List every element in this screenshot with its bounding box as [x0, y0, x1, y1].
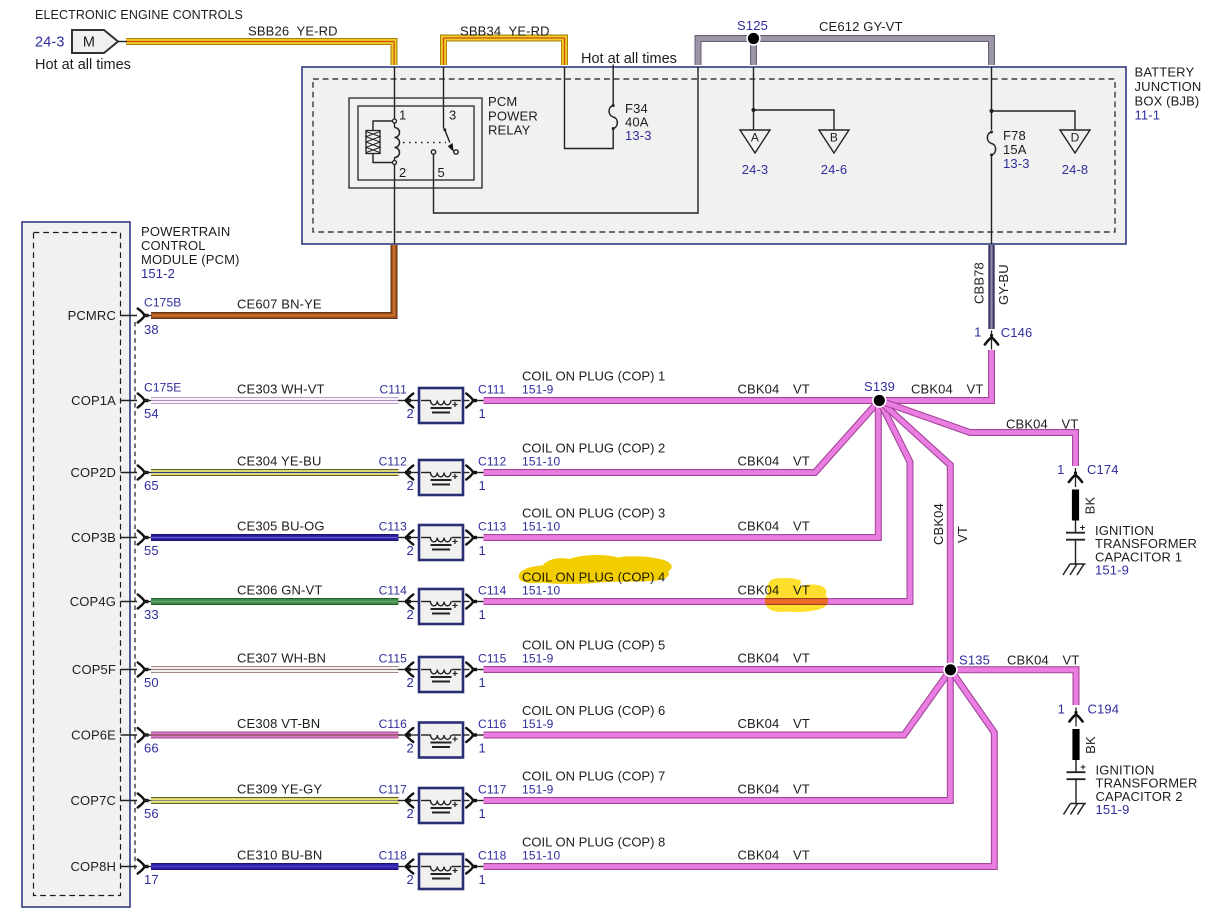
svg-text:COIL ON PLUG (COP) 3: COIL ON PLUG (COP) 3: [522, 506, 665, 521]
svg-text:CBB78: CBB78: [972, 262, 987, 304]
connector C118 pin 1 arrow (coil output): [463, 866, 470, 868]
PCM module box (POWERTRAIN CONTROL MODULE): [22, 222, 130, 907]
ignition coil 8 box: [419, 854, 463, 889]
svg-text:BOX (BJB): BOX (BJB): [1135, 94, 1200, 109]
wire CBK04 VT from C117 to splice: [484, 670, 951, 801]
svg-text:CBK04: CBK04: [738, 382, 780, 397]
fuse F78 15A: [987, 132, 995, 155]
relay coil terminal 2: [393, 161, 397, 165]
wire CBK04 VT from C111 to splice: [484, 397, 880, 404]
ignition coil 7 box: [419, 788, 463, 823]
svg-text:COIL ON PLUG (COP) 8: COIL ON PLUG (COP) 8: [522, 835, 665, 850]
wire CE607 BN-YE from relay pin 2 to PCMRC: [151, 245, 394, 316]
svg-text:VT: VT: [793, 651, 810, 666]
svg-text:1: 1: [1058, 702, 1065, 717]
svg-text:COIL ON PLUG (COP) 2: COIL ON PLUG (COP) 2: [522, 441, 665, 456]
svg-text:2: 2: [407, 543, 414, 558]
svg-text:1: 1: [1057, 462, 1064, 477]
svg-text:S125: S125: [737, 18, 768, 33]
wire CBK04 VT from S135 to C194 capacitor branch: [951, 670, 1077, 705]
ignition coil 2 box: [419, 460, 463, 495]
svg-text:151-9: 151-9: [522, 783, 554, 797]
connector C115 pin 2 arrow (coil input): [405, 668, 411, 671]
svg-text:24-6: 24-6: [821, 162, 848, 177]
connector C116 pin 1 arrow (coil output): [463, 734, 470, 736]
svg-text:151-10: 151-10: [522, 849, 560, 863]
connector arrow pin 55: [143, 536, 149, 539]
svg-text:151-10: 151-10: [522, 455, 560, 469]
ignition coil 1 core bars: [431, 407, 452, 409]
svg-text:VT: VT: [1062, 417, 1079, 432]
svg-text:2: 2: [407, 741, 414, 756]
svg-text:54: 54: [144, 406, 159, 421]
wire CBK04 VT from C113 to splice: [484, 401, 880, 538]
svg-text:24-3: 24-3: [742, 162, 769, 177]
eyelet terminal A: [740, 130, 770, 153]
svg-text:17: 17: [144, 872, 159, 887]
svg-text:C117: C117: [478, 783, 507, 797]
svg-text:D: D: [1071, 131, 1080, 145]
wire CE305 BU-OG: [151, 534, 399, 541]
wire CBK04 VT from C114 to splice: [484, 401, 911, 602]
splice S135: [943, 663, 958, 678]
relay suppression resistor: [373, 121, 393, 131]
connector arrow pin 66: [143, 733, 149, 736]
svg-text:50: 50: [144, 675, 159, 690]
svg-text:COP1A: COP1A: [71, 393, 116, 408]
wire: F34 fuse bottom lead to SBB34 right leg: [565, 67, 614, 149]
ignition coil 3 box: [419, 525, 463, 560]
svg-text:C118: C118: [379, 849, 408, 863]
wire BK (black) to capacitor 2: [1072, 729, 1079, 760]
svg-text:COIL ON PLUG (COP) 1: COIL ON PLUG (COP) 1: [522, 369, 665, 384]
connector arrow pin 54: [143, 399, 149, 402]
svg-text:GY-BU: GY-BU: [996, 264, 1011, 305]
svg-text:C114: C114: [379, 584, 408, 598]
connector C112 pin 2 arrow (coil input): [405, 471, 411, 474]
wire CE308 VT-BN: [151, 732, 399, 739]
connector C114 pin 1 arrow (coil output): [463, 601, 470, 603]
svg-text:CE310 BU-BN: CE310 BU-BN: [237, 848, 322, 863]
wire CBK04 VT from C116 to splice: [484, 670, 951, 735]
svg-text:RELAY: RELAY: [488, 123, 531, 138]
svg-text:1: 1: [479, 406, 486, 421]
wire SBB34 YE-RD from F34 to relay pin 3: [444, 38, 565, 65]
ignition coil 4 box: [419, 589, 463, 624]
svg-text:COP4G: COP4G: [70, 594, 116, 609]
wire CE304 YE-BU: [151, 469, 399, 476]
svg-text:13-3: 13-3: [625, 128, 652, 143]
wire CBK04 VT from C118 to splice: [484, 670, 995, 867]
svg-text:VT: VT: [967, 382, 984, 397]
svg-text:13-3: 13-3: [1003, 156, 1030, 171]
svg-text:CE303 WH-VT: CE303 WH-VT: [237, 382, 325, 397]
wire SBB26 YE-RD from connector M to relay pin 1: [126, 42, 394, 66]
wire: F34 fuse top lead from Hot at all times: [612, 65, 614, 106]
svg-text:CE607 BN-YE: CE607 BN-YE: [237, 297, 322, 312]
wire CBB78 GY-BU from BJB to C146: [988, 245, 994, 329]
ignition coil 8 core bars: [431, 873, 452, 875]
svg-text:C174: C174: [1087, 462, 1119, 477]
svg-text:CBK04: CBK04: [738, 782, 780, 797]
ground for capacitor 2: [1071, 803, 1087, 805]
connector arrow pin 65: [143, 471, 149, 474]
wire: relay pin2 to box bottom (to CE607): [394, 164, 396, 244]
svg-text:CE305 BU-OG: CE305 BU-OG: [237, 519, 325, 534]
svg-text:151-10: 151-10: [522, 520, 560, 534]
svg-text:BK: BK: [1083, 736, 1098, 754]
eyelet terminal D: [1060, 130, 1090, 153]
svg-text:POWER: POWER: [488, 108, 538, 123]
svg-text:F78: F78: [1003, 128, 1026, 143]
ignition coil 6 core bars: [431, 742, 452, 744]
PCM inner dashed border: [34, 233, 121, 896]
svg-text:C114: C114: [478, 584, 507, 598]
connector C114 pin 2 arrow (coil input): [405, 600, 411, 603]
svg-text:VT: VT: [955, 526, 970, 543]
ignition coil 2 winding: [421, 472, 431, 474]
svg-text:S135: S135: [959, 653, 990, 668]
svg-text:JUNCTION: JUNCTION: [1135, 79, 1202, 94]
svg-text:S139: S139: [864, 379, 895, 394]
svg-text:5: 5: [438, 165, 445, 180]
wire: S125 stub into BJB to junction: [753, 67, 755, 110]
svg-text:C112: C112: [478, 455, 507, 469]
splice S125: [746, 31, 760, 45]
Battery Junction Box (BJB): [302, 67, 1126, 244]
ignition transformer capacitor 1 plates: [1066, 532, 1085, 534]
svg-text:VT: VT: [793, 454, 810, 469]
wire: relay pin5 to CE612 left leg: [434, 67, 699, 213]
svg-text:151-9: 151-9: [522, 717, 554, 731]
svg-text:56: 56: [144, 806, 159, 821]
svg-text:VT: VT: [1063, 653, 1080, 668]
ground for capacitor 1: [1070, 563, 1086, 565]
wire CE310 BU-BN: [151, 863, 399, 870]
svg-text:CBK04: CBK04: [738, 454, 780, 469]
svg-text:1: 1: [479, 607, 486, 622]
svg-text:BK: BK: [1083, 497, 1098, 515]
ignition coil 6 box: [419, 723, 463, 758]
svg-text:2: 2: [407, 607, 414, 622]
svg-text:2: 2: [407, 872, 414, 887]
ignition coil 5 core bars: [431, 676, 452, 678]
ignition coil 1 winding: [421, 400, 431, 402]
svg-text:CONTROL: CONTROL: [141, 238, 206, 253]
svg-text:11-1: 11-1: [1135, 108, 1161, 123]
svg-text:38: 38: [144, 322, 159, 337]
svg-text:SBB34 YE-RD: SBB34 YE-RD: [460, 24, 550, 39]
connector C174 pin 1 (arrow): [1075, 468, 1077, 487]
wire CBK04 VT from S139 to C146: [879, 350, 991, 401]
relay switch blade: [445, 130, 450, 143]
ignition coil 2 core bars: [431, 479, 452, 481]
svg-text:2: 2: [407, 478, 414, 493]
ignition coil 3 core bars: [431, 544, 452, 546]
svg-text:CE304 YE-BU: CE304 YE-BU: [237, 454, 322, 469]
svg-text:C111: C111: [379, 383, 407, 397]
svg-text:1: 1: [479, 543, 486, 558]
ignition coil 3 winding: [421, 537, 431, 539]
wire CBK04 VT from C115 to splice: [484, 666, 951, 673]
relay pin 5 terminal: [431, 150, 435, 154]
svg-text:COP3B: COP3B: [71, 530, 116, 545]
svg-text:2: 2: [407, 406, 414, 421]
svg-text:151-9: 151-9: [1096, 802, 1130, 817]
svg-text:COP7C: COP7C: [70, 793, 116, 808]
ignition coil 7 winding: [421, 800, 431, 802]
svg-text:CBK04: CBK04: [1006, 417, 1048, 432]
svg-text:B: B: [830, 131, 838, 145]
svg-text:VT: VT: [793, 519, 810, 534]
connector C112 pin 1 arrow (coil output): [463, 472, 470, 474]
svg-text:C118: C118: [478, 849, 507, 863]
svg-text:C113: C113: [478, 520, 507, 534]
svg-text:CBK04: CBK04: [738, 716, 780, 731]
ignition coil 4 winding: [421, 601, 431, 603]
wire: junction to terminal A: [753, 110, 755, 130]
svg-text:1: 1: [479, 806, 486, 821]
svg-text:3: 3: [449, 108, 456, 123]
ignition coil 4 core bars: [431, 608, 452, 610]
ignition coil 5 winding: [421, 669, 431, 671]
wire CBK04 VT trunk S139 to S135: [879, 401, 950, 670]
wire CE612 GY-VT with S125 splice: [698, 39, 992, 66]
svg-text:C115: C115: [478, 652, 507, 666]
junction dot at F78 branch: [989, 109, 993, 113]
svg-text:C112: C112: [379, 455, 408, 469]
wire: relay pin3 feed from SBB34 (inside BJB): [443, 67, 445, 129]
wire CE306 GN-VT: [151, 598, 399, 605]
wire S125 stub: [750, 40, 757, 65]
svg-text:33: 33: [144, 607, 159, 622]
connector C146 pin 1 arrow: [991, 331, 993, 350]
svg-text:VT: VT: [793, 382, 810, 397]
svg-text:24-3: 24-3: [35, 35, 65, 51]
svg-text:COP2D: COP2D: [70, 465, 116, 480]
svg-text:CE308 VT-BN: CE308 VT-BN: [237, 716, 320, 731]
connector C117 pin 1 arrow (coil output): [463, 800, 470, 802]
svg-text:BATTERY: BATTERY: [1135, 64, 1195, 79]
connector C115 pin 1 arrow (coil output): [463, 669, 470, 671]
wire: junction to terminal B: [754, 110, 835, 130]
svg-text:65: 65: [144, 478, 159, 493]
svg-text:15A: 15A: [1003, 142, 1027, 157]
wire CE303 WH-VT: [151, 397, 399, 404]
wire: CE612 right leg to F78 junction: [991, 67, 993, 130]
wire CE309 YE-GY: [151, 797, 399, 804]
svg-text:Hot at all times: Hot at all times: [35, 57, 131, 73]
fuse F34 40A: [609, 106, 617, 129]
svg-text:1: 1: [479, 675, 486, 690]
connector M symbol: [72, 30, 118, 53]
wire: relay pin1 feed from SBB26 (inside BJB): [394, 67, 396, 119]
wire CBK04 VT from S139 to C174 capacitor branch: [879, 401, 1075, 467]
svg-text:COP6E: COP6E: [71, 728, 116, 743]
PCM connector face dashed line: [134, 322, 136, 872]
svg-text:COP8H: COP8H: [70, 859, 116, 874]
svg-text:CBK04: CBK04: [738, 519, 780, 534]
svg-text:24-8: 24-8: [1062, 162, 1089, 177]
ignition coil 5 box: [419, 657, 463, 692]
svg-text:COP5F: COP5F: [72, 662, 116, 677]
svg-text:2: 2: [407, 806, 414, 821]
svg-text:1: 1: [479, 478, 486, 493]
svg-text:C113: C113: [379, 520, 408, 534]
svg-text:COIL ON PLUG (COP) 5: COIL ON PLUG (COP) 5: [522, 638, 665, 653]
svg-text:VT: VT: [793, 848, 810, 863]
svg-text:CBK04: CBK04: [1007, 653, 1049, 668]
svg-text:COIL ON PLUG (COP) 7: COIL ON PLUG (COP) 7: [522, 769, 665, 784]
yellow highlighter over COIL ON PLUG (COP) 4: [519, 555, 672, 584]
svg-text:ELECTRONIC ENGINE CONTROLS: ELECTRONIC ENGINE CONTROLS: [35, 8, 243, 22]
connector C111 pin 2 arrow (coil input): [405, 399, 411, 402]
junction dot below S125: [751, 108, 755, 112]
svg-text:CE306 GN-VT: CE306 GN-VT: [237, 583, 322, 598]
PCM power relay outer box: [349, 98, 482, 188]
svg-text:CE309 YE-GY: CE309 YE-GY: [237, 782, 322, 797]
svg-text:VT: VT: [793, 782, 810, 797]
BJB inner dashed border: [313, 79, 1115, 232]
svg-text:151-9: 151-9: [522, 652, 554, 666]
connector C113 pin 2 arrow (coil input): [405, 536, 411, 539]
svg-text:2: 2: [407, 675, 414, 690]
svg-text:PCMRC: PCMRC: [68, 308, 116, 323]
svg-text:Hot at all times: Hot at all times: [581, 51, 677, 67]
svg-text:151-9: 151-9: [1095, 563, 1129, 578]
connector C117 pin 2 arrow (coil input): [405, 799, 411, 802]
ignition coil 1 box: [419, 388, 463, 423]
splice S139: [872, 393, 887, 408]
wire CE307 WH-BN: [151, 666, 399, 673]
connector C116 pin 2 arrow (coil input): [405, 733, 411, 736]
relay switch contact: [454, 150, 458, 154]
svg-text:CE307 WH-BN: CE307 WH-BN: [237, 651, 326, 666]
svg-text:151-9: 151-9: [522, 383, 554, 397]
svg-text:C116: C116: [478, 717, 507, 731]
connector arrow pin 56: [143, 799, 149, 802]
svg-text:1: 1: [479, 741, 486, 756]
connector C118 pin 2 arrow (coil input): [405, 865, 411, 868]
capacitor C2 polarity +: [1075, 760, 1077, 772]
svg-text:M: M: [83, 35, 95, 51]
relay switch pin 3 terminal: [443, 128, 446, 131]
svg-text:151-2: 151-2: [141, 266, 175, 281]
svg-text:SBB26 YE-RD: SBB26 YE-RD: [248, 24, 338, 39]
svg-text:COIL ON PLUG (COP) 6: COIL ON PLUG (COP) 6: [522, 703, 665, 718]
connector arrow pin 50: [143, 668, 149, 671]
svg-text:MODULE (PCM): MODULE (PCM): [141, 252, 240, 267]
wire: junction to terminal D: [992, 111, 1076, 130]
svg-text:1: 1: [399, 108, 406, 123]
wire BK (black) to capacitor 1: [1072, 490, 1079, 521]
eyelet terminal B: [819, 130, 849, 153]
svg-text:151-10: 151-10: [522, 584, 560, 598]
ignition coil 6 winding: [421, 734, 431, 736]
svg-text:66: 66: [144, 741, 159, 756]
svg-text:C117: C117: [379, 783, 408, 797]
svg-text:VT: VT: [793, 716, 810, 731]
svg-text:55: 55: [144, 543, 159, 558]
svg-text:C111: C111: [478, 383, 506, 397]
connector C194 pin 1 (arrow): [1075, 708, 1077, 727]
svg-text:1: 1: [974, 325, 981, 340]
svg-text:C194: C194: [1088, 702, 1120, 717]
relay coil terminal 1: [393, 119, 397, 123]
relay coil K1: [394, 123, 396, 128]
ignition coil 8 winding: [421, 866, 431, 868]
PCM power relay inner box: [358, 106, 474, 180]
connector arrow pin 33: [143, 600, 149, 603]
connector C175B pin 38 arrow: [143, 314, 149, 317]
connector C111 pin 1 arrow (coil output): [463, 400, 470, 402]
svg-text:C115: C115: [379, 652, 408, 666]
svg-text:CBK04: CBK04: [738, 848, 780, 863]
svg-text:PCM: PCM: [488, 94, 517, 109]
connector arrow pin 17: [143, 865, 149, 868]
svg-text:C175B: C175B: [144, 296, 181, 310]
svg-text:POWERTRAIN: POWERTRAIN: [141, 224, 230, 239]
svg-text:CBK04: CBK04: [911, 382, 953, 397]
svg-text:CE612 GY-VT: CE612 GY-VT: [819, 19, 903, 34]
wire CBK04 VT from C112 to splice: [484, 401, 880, 473]
svg-text:CBK04: CBK04: [931, 503, 946, 545]
svg-text:A: A: [751, 131, 759, 145]
svg-text:C175E: C175E: [144, 381, 181, 395]
capacitor C1 polarity +: [1075, 521, 1077, 533]
ignition transformer capacitor 2 plates: [1067, 771, 1086, 773]
ignition coil 7 core bars: [431, 807, 452, 809]
relay actuation dotted link: [403, 142, 446, 144]
svg-text:C146: C146: [1001, 325, 1033, 340]
yellow highlighter over CBK04 VT row 4: [765, 578, 828, 612]
svg-text:CBK04: CBK04: [738, 651, 780, 666]
svg-text:1: 1: [479, 872, 486, 887]
connector C113 pin 1 arrow (coil output): [463, 537, 470, 539]
svg-text:2: 2: [399, 165, 406, 180]
svg-text:C116: C116: [379, 717, 408, 731]
wire: F78 bottom lead to box bottom: [991, 155, 993, 244]
